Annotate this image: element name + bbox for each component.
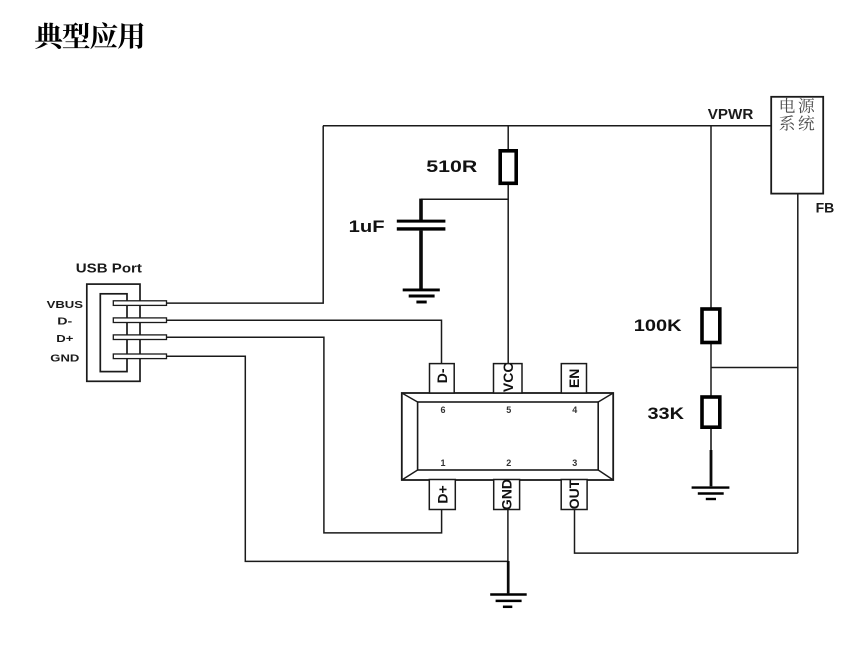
USB connector inner body: [100, 294, 127, 372]
IC pin box VCC (pin 5): [494, 364, 523, 393]
wire: 33K bottom lead: [710, 427, 712, 451]
wire: 510R bottom to IC pin5 VCC: [507, 183, 509, 363]
wire: D- net (USB pin2 to IC pin6 D-): [167, 320, 442, 363]
wire: VBUS net (USB pin1 to top rail): [167, 126, 324, 303]
svg-text:GND: GND: [50, 354, 79, 365]
wire: capacitor branch from VCC node: [421, 198, 508, 200]
svg-text:D-: D-: [57, 317, 72, 328]
wire: D+ net (USB pin3 to IC pin1 D+): [167, 337, 442, 533]
USB pin 4 (GND): [113, 354, 166, 359]
IC bevel corner top-right: [598, 393, 613, 402]
capacitor C1 top lead: [419, 199, 423, 220]
USB pin 1 (VBUS): [113, 301, 166, 306]
IC bevel corner top-left: [402, 393, 418, 402]
power system box (电源系统): [771, 97, 823, 194]
IC pin box OUT (pin 3): [561, 480, 587, 510]
ground symbol (capacitor): [403, 290, 440, 302]
svg-text:510R: 510R: [426, 158, 477, 176]
svg-text:USB Port: USB Port: [76, 261, 143, 275]
wire: FB line from power box bottom: [797, 194, 799, 553]
IC pin box D- (pin 6): [430, 364, 455, 393]
IC U1 inner body: [418, 402, 599, 470]
resistor 33K body: [702, 397, 720, 427]
svg-text:5: 5: [506, 405, 511, 415]
IC pin box D+ (pin 1): [429, 480, 455, 510]
svg-text:2: 2: [506, 458, 511, 468]
svg-text:OUT: OUT: [566, 479, 582, 509]
svg-text:3: 3: [572, 458, 577, 468]
svg-text:GND: GND: [499, 479, 515, 510]
svg-text:D+: D+: [434, 485, 450, 503]
USB pin 2 (D-): [113, 318, 166, 323]
ground symbol (33K divider): [692, 488, 730, 499]
wire: VCC drop from rail to resistor 510R: [507, 126, 509, 151]
33K lead to ground symbol: [710, 450, 713, 486]
wire: VPWR drop from rail to resistor 100K: [710, 126, 712, 309]
IC bevel corner bottom-left: [402, 470, 418, 480]
svg-text:1: 1: [440, 458, 445, 468]
svg-text:6: 6: [440, 405, 445, 415]
IC pin box EN (pin 4): [561, 364, 586, 393]
resistor 100K body: [702, 309, 720, 343]
ground symbol (IC GND): [490, 595, 527, 607]
title text 典型应用: [35, 22, 143, 49]
svg-text:D+: D+: [56, 334, 73, 345]
IC pin box GND (pin 2): [494, 480, 520, 510]
capacitor C1 bottom plate: [397, 227, 446, 230]
svg-text:VBUS: VBUS: [47, 300, 84, 311]
IC GND lead to ground symbol: [507, 561, 510, 593]
wire: OUT net (IC pin3 OUT to FB line): [575, 510, 798, 554]
svg-text:4: 4: [572, 405, 577, 415]
IC bevel corner bottom-right: [598, 470, 613, 480]
svg-text:100K: 100K: [634, 317, 682, 335]
resistor 510R body: [500, 151, 516, 184]
IC U1 outer body: [402, 393, 613, 480]
svg-text:VCC: VCC: [500, 363, 516, 393]
capacitor C1 top plate: [397, 220, 446, 223]
wire: GND net (USB pin4 to IC pin2 GND): [167, 356, 508, 561]
svg-text:33K: 33K: [648, 405, 685, 423]
wire: top VPWR rail: [323, 125, 771, 127]
wire: FB branch (divider node to FB line): [711, 367, 798, 369]
svg-text:VPWR: VPWR: [708, 106, 754, 123]
svg-text:FB: FB: [816, 200, 835, 216]
power-system box text 电源: [781, 98, 814, 113]
wire: IC GND pin down to net junction: [507, 510, 509, 562]
USB pin 3 (D+): [113, 335, 166, 340]
wire: 100K to 33K with FB branch node: [710, 343, 712, 398]
capacitor C1 bottom lead: [419, 231, 423, 289]
svg-text:1uF: 1uF: [349, 218, 385, 236]
svg-text:EN: EN: [566, 369, 582, 388]
power-system box text 系统: [779, 115, 814, 131]
USB connector outer shell: [87, 284, 140, 381]
svg-text:D-: D-: [434, 368, 450, 383]
